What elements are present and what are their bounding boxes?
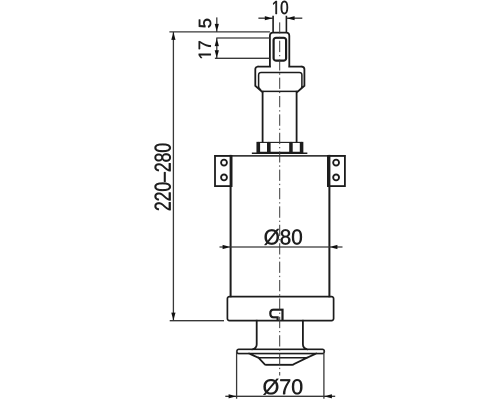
right ear xyxy=(328,156,345,186)
bell outer right xyxy=(297,67,304,93)
bell inner seam xyxy=(259,73,302,90)
dim line O80 xyxy=(220,246,343,248)
right ear hole 1 xyxy=(333,160,339,166)
body top edge xyxy=(215,155,345,157)
centerline xyxy=(279,22,281,375)
seal mid line xyxy=(258,357,307,359)
base band xyxy=(227,297,333,321)
stem (threaded rod top) xyxy=(273,17,286,33)
dim line 17 seg xyxy=(216,38,218,58)
arrow O70 right xyxy=(324,394,332,398)
ref line top (y32) xyxy=(169,31,270,33)
arrow 10 right xyxy=(287,16,295,20)
left ear hole 1 xyxy=(221,160,227,166)
arrow 17 down xyxy=(215,50,219,58)
arrow 5 down xyxy=(215,24,219,32)
tooth 2 xyxy=(267,142,271,152)
label O70 xyxy=(263,379,302,395)
left ear xyxy=(215,156,232,186)
arrow 10 left xyxy=(265,16,273,20)
dim 220-280 vline xyxy=(172,32,174,321)
cylinder walls xyxy=(263,91,297,141)
label 10 xyxy=(273,1,288,14)
cylinder top edge xyxy=(263,90,297,92)
tooth 1 xyxy=(257,142,260,152)
O70 ext line left xyxy=(236,351,238,399)
seal tier2 xyxy=(259,358,308,365)
arrow O80 right xyxy=(329,245,337,249)
neck walls xyxy=(252,321,307,350)
body walls xyxy=(231,156,330,297)
arrow O80 left xyxy=(223,245,231,249)
arrow 17 up xyxy=(215,38,219,46)
O70 ext line right xyxy=(323,351,325,399)
cap inner window xyxy=(274,38,287,61)
hook clip xyxy=(270,310,282,321)
left ear hole 2 xyxy=(221,175,227,181)
right ear hole 2 xyxy=(333,175,339,181)
collar lip xyxy=(253,152,307,154)
arrow O70 left xyxy=(229,394,237,398)
dimension graphics xyxy=(169,17,342,398)
label 220-280 xyxy=(155,144,171,211)
dim 10 line xyxy=(258,17,302,19)
tooth 4 xyxy=(300,142,303,152)
label 5 xyxy=(199,19,211,28)
dim line O70 xyxy=(225,395,335,397)
seal tier1 slopes xyxy=(249,354,316,358)
arrow 220-280 down xyxy=(171,313,175,321)
arrow 220-280 up xyxy=(171,32,175,40)
label O80 xyxy=(264,229,302,245)
label 17 xyxy=(199,41,211,58)
ref line bottom (y320.7) xyxy=(170,320,224,322)
dim line 5 seg xyxy=(216,17,218,32)
ref line3 (y58) xyxy=(215,57,270,59)
tooth 3 xyxy=(289,142,293,152)
cap outer (upper push-rod housing) xyxy=(270,33,289,67)
ref line2 (y38) xyxy=(216,37,270,39)
bell outer left xyxy=(255,67,262,93)
arrowheads xyxy=(171,16,337,398)
flange xyxy=(237,349,324,353)
bell shoulder top edges xyxy=(258,66,302,68)
teeth band outline xyxy=(257,142,303,152)
teeth bars (black) xyxy=(257,142,303,152)
